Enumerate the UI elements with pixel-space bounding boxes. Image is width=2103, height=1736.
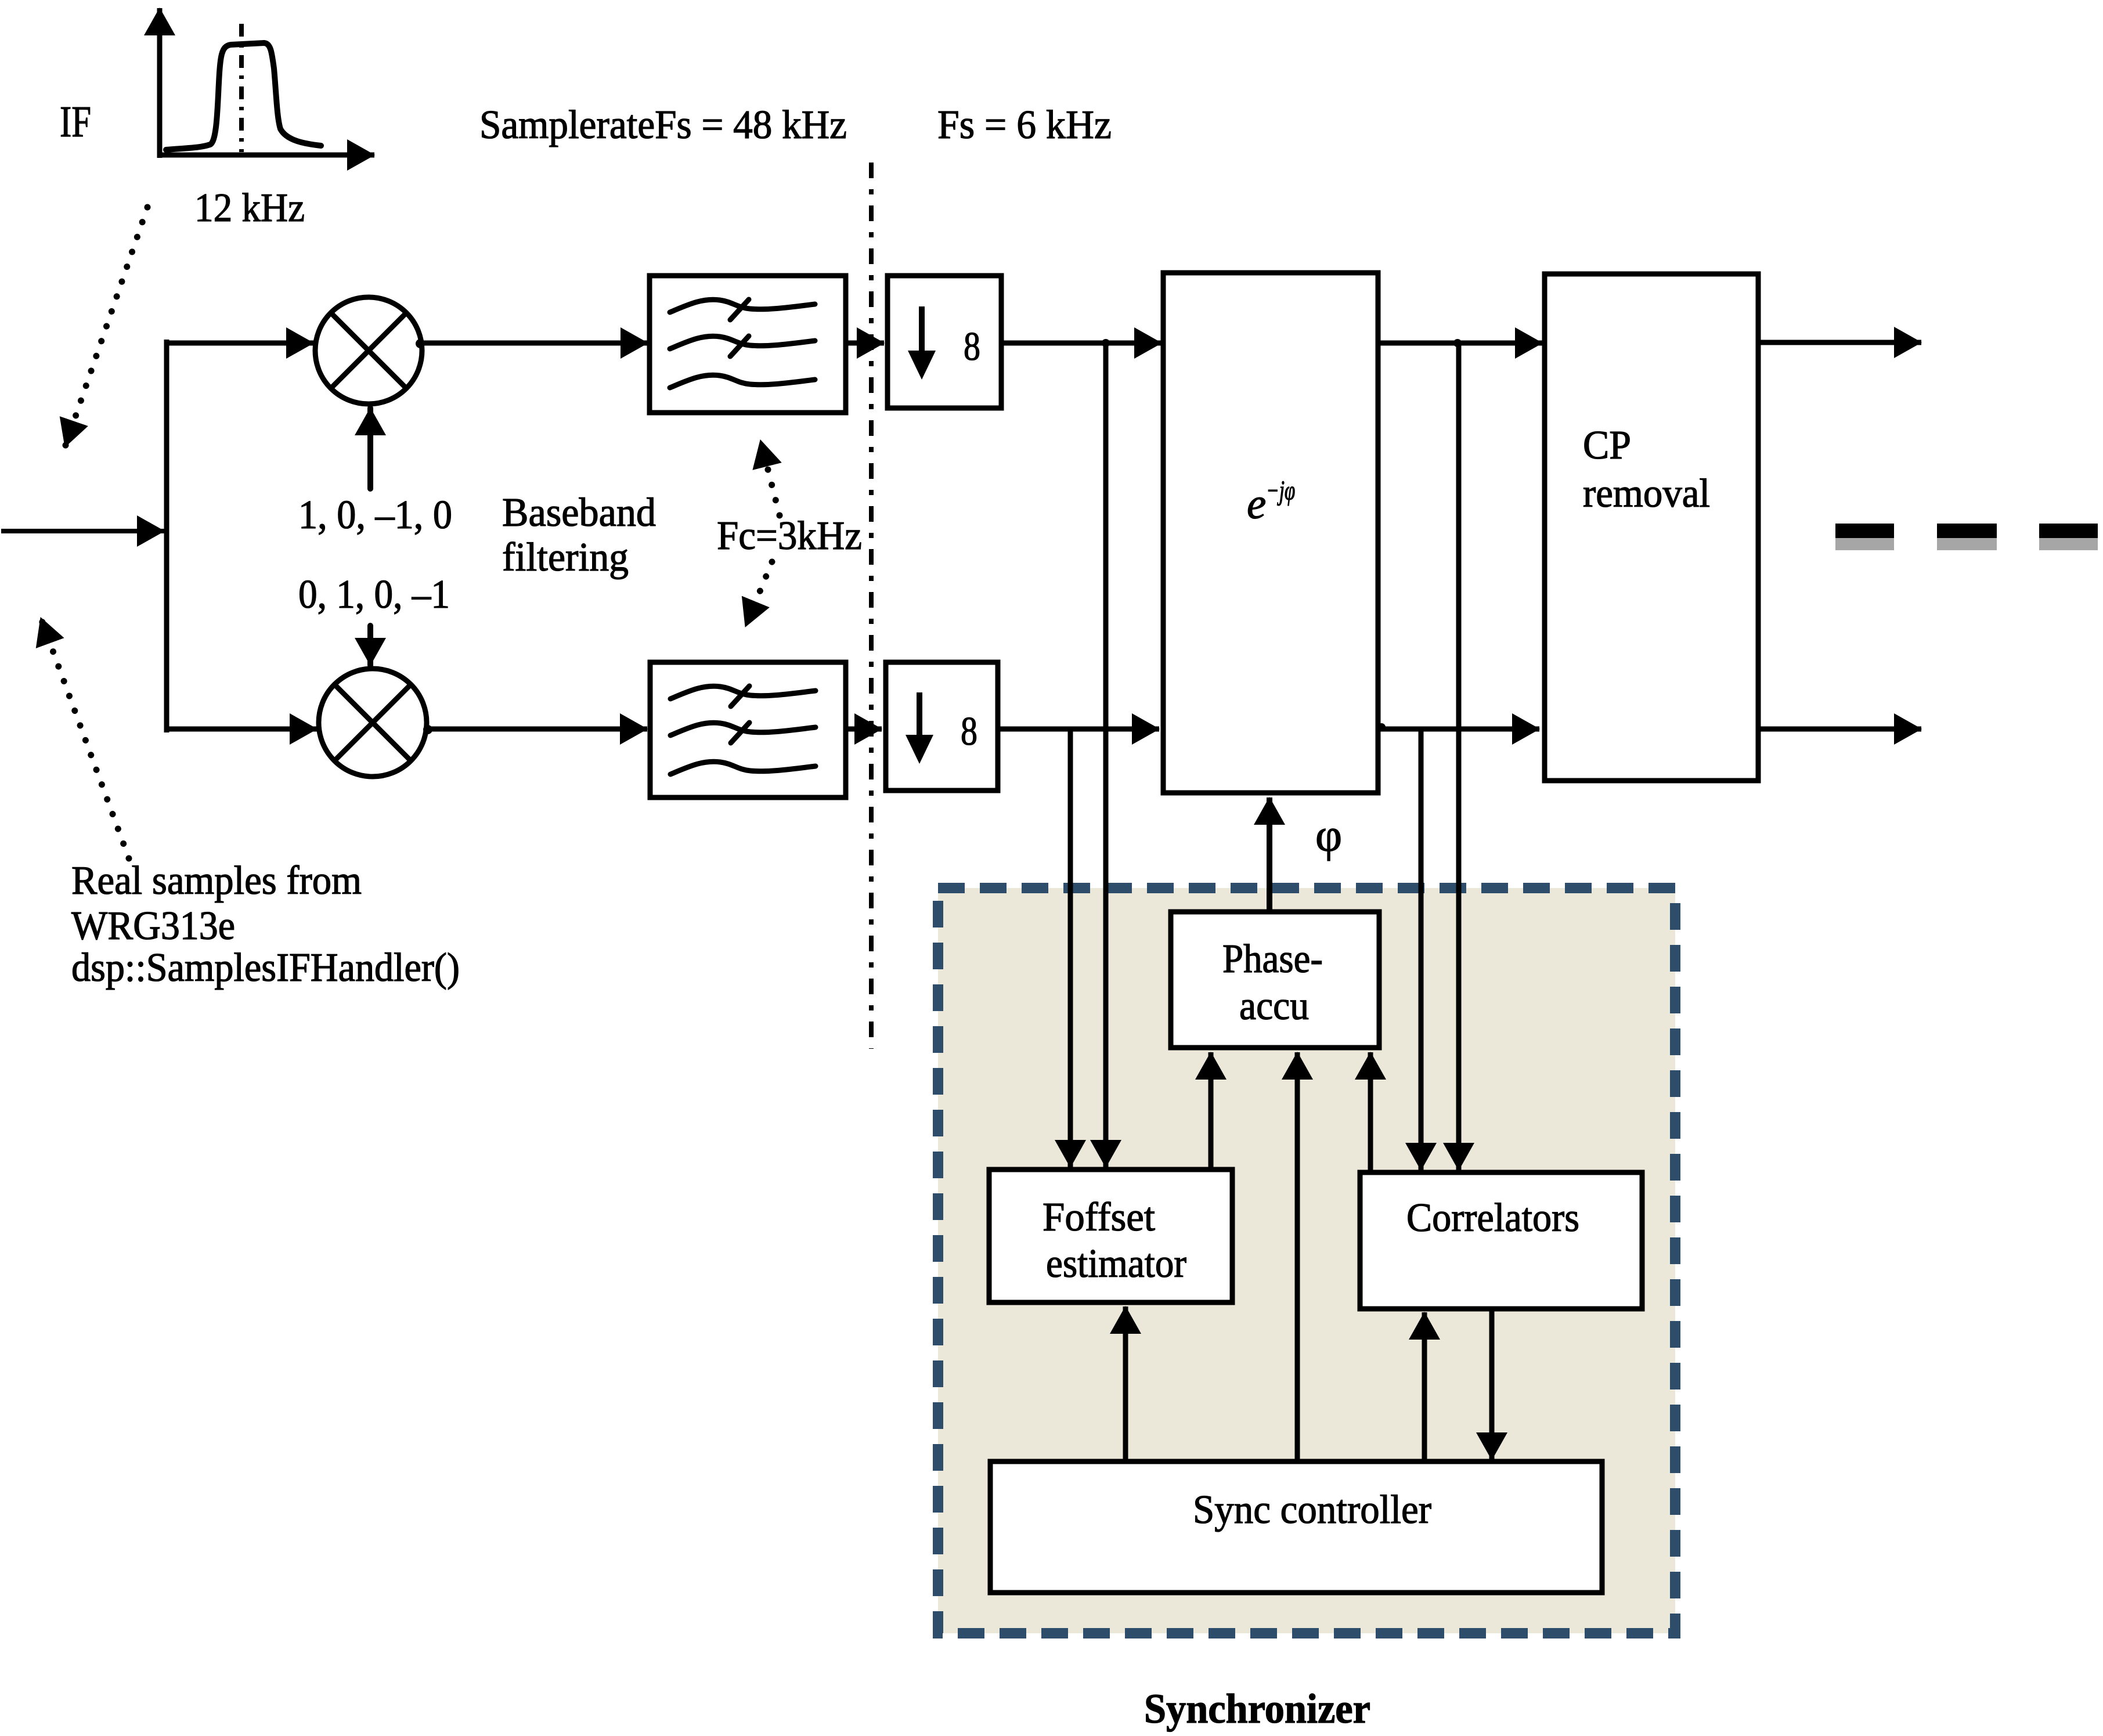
continuation dashes [1835,524,2098,550]
wire filter I to downsampler I [846,341,884,346]
dotted arrow Fc to filter Q [745,562,772,627]
tap wire lower branch to Foffset estimator [1068,729,1073,1167]
svg-text:Fs = 6 kHz: Fs = 6 kHz [937,103,1112,147]
mixer I (upper) [315,297,422,404]
svg-text:0, 1, 0, –1: 0, 1, 0, –1 [298,572,450,617]
Phase-accu box [1171,912,1379,1048]
synchronizer dashed container [938,888,1675,1633]
dotted arrow Fc to filter I [760,440,780,515]
wire e-jphi to CP removal (lower) [1378,727,1539,732]
svg-text:8: 8 [964,324,980,369]
svg-text:8: 8 [961,709,977,754]
svg-text:filtering: filtering [502,535,629,580]
CP removal box [1545,274,1758,781]
arrow Foffset to Phase-accu [1209,1052,1214,1170]
input wire [1,529,164,533]
arrow Sync controller to Correlators [1422,1312,1427,1461]
filter Q box [650,662,846,797]
svg-text:WRG313e: WRG313e [71,904,235,948]
IF spectrum curve [166,43,321,150]
wire mixer Q to filter Q [427,727,647,732]
downsampler I box [888,276,1001,408]
arrow Correlators to Phase-accu [1368,1052,1373,1172]
svg-text:SamplerateFs = 48 kHz: SamplerateFs = 48 kHz [479,103,847,147]
tap wire upper branch to Foffset estimator [1103,343,1109,1167]
wire mixer I to filter I [422,341,648,346]
downsampler Q box [886,662,998,791]
tap wire upper output to Correlators [1456,343,1462,1170]
IF spectrum sketch: vertical axis [157,8,163,158]
svg-text:Sync controller: Sync controller [1193,1488,1431,1532]
dotted arrow from IF graph to input wire [65,207,147,447]
svg-text:Synchronizer: Synchronizer [1144,1686,1370,1732]
svg-text:Foffset: Foffset [1043,1195,1156,1240]
wire e-jphi to CP removal (upper) [1378,341,1542,346]
svg-text:1, 0, –1, 0: 1, 0, –1, 0 [298,493,452,537]
arrow Sync controller to Foffset estimator [1123,1306,1128,1461]
wire downsampler I to e-jphi [1001,341,1161,346]
arrow Correlators to Sync controller [1489,1309,1495,1460]
IF spectrum center dash-dot line [239,24,244,152]
junction dot upper tap [1102,339,1110,347]
wire filter Q to downsampler Q [846,727,882,732]
svg-text:IF: IF [60,98,91,146]
junction dot mixer Q output [423,725,432,734]
wire to mixer I [167,341,313,346]
svg-text:Real samples from: Real samples from [71,858,362,903]
output wire lower [1758,727,1921,732]
svg-text:accu: accu [1239,984,1309,1028]
tap wire lower output to Correlators [1419,729,1424,1170]
IF spectrum sketch: horizontal axis [157,153,374,158]
svg-text:removal: removal [1583,471,1710,516]
LO arrow into mixer I [367,408,373,489]
svg-text:12 kHz: 12 kHz [194,186,305,230]
svg-text:Fc=3kHz: Fc=3kHz [717,514,862,558]
svg-text:Phase-: Phase- [1222,937,1323,981]
svg-text:dsp::SamplesIFHandler(): dsp::SamplesIFHandler() [71,945,460,990]
arrow Sync controller to Phase-accu [1295,1052,1300,1461]
Foffset estimator box [989,1170,1232,1302]
LO arrow into mixer Q [367,626,373,665]
svg-text:φ: φ [1315,810,1342,861]
wire to mixer Q [167,727,317,732]
svg-text:CP: CP [1583,423,1631,468]
junction dot mixer I output [416,339,425,348]
mixer Q (lower) [319,669,427,777]
phi arrow into e-jphi [1267,797,1272,912]
Sync controller box [990,1461,1602,1593]
junction dot upper output tap [1453,339,1462,347]
svg-text:Correlators: Correlators [1406,1196,1579,1240]
output wire upper [1758,340,1921,345]
Correlators box [1360,1172,1642,1309]
dotted arrow from Real-samples note to input wire [41,618,129,858]
filter I box [650,276,846,413]
svg-text:Baseband: Baseband [502,490,656,535]
branch wire vertical [164,340,169,732]
samplerate boundary dash-dot line [869,163,874,1049]
svg-text:estimator: estimator [1046,1241,1186,1286]
junction dot e-jphi lower output [1377,723,1386,731]
e-jphi rotator box [1163,273,1378,793]
wire downsampler Q to e-jphi [998,727,1159,732]
